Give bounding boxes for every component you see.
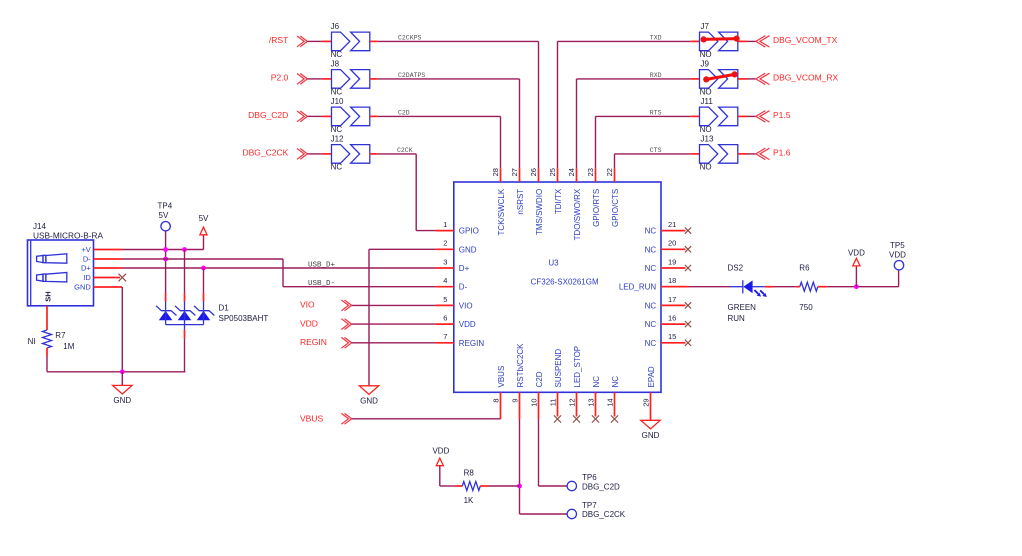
diode D1 element 3	[194, 293, 268, 325]
J14 plug symbol lower	[37, 273, 67, 282]
port DBG_VCOM_RX	[756, 73, 839, 85]
svg-text:NC: NC	[645, 264, 657, 273]
wire pin 9 net	[520, 419, 568, 514]
svg-text:5V: 5V	[199, 214, 209, 223]
svg-text:C2D: C2D	[398, 109, 410, 116]
pin D- of J14	[83, 255, 122, 264]
wire net C2DATPS	[378, 72, 520, 168]
wire D1 second column	[184, 250, 186, 294]
junction R8/pin9	[517, 484, 522, 489]
svg-text:U3: U3	[548, 259, 559, 268]
pin D+ of J14	[81, 264, 122, 273]
pin ID of J14	[83, 273, 120, 282]
svg-text:29: 29	[642, 398, 651, 406]
svg-text:P1.6: P1.6	[773, 148, 791, 158]
svg-text:NO: NO	[700, 125, 712, 134]
svg-text:VBUS: VBUS	[497, 366, 506, 388]
svg-text:TP6: TP6	[582, 473, 597, 482]
svg-text:R6: R6	[799, 263, 810, 272]
svg-text:RUN: RUN	[728, 314, 746, 323]
wire VDD to R8	[440, 466, 463, 486]
svg-text:+V: +V	[81, 245, 90, 254]
svg-text:VDD: VDD	[432, 447, 449, 456]
wire D1 to ground rail	[184, 325, 186, 372]
svg-text:25: 25	[548, 168, 557, 176]
pin 12 LED_STOP of U3	[568, 346, 582, 423]
pin 4 D- of U3	[435, 276, 467, 292]
resistor R6	[799, 263, 818, 312]
svg-text:SP0503BAHT: SP0503BAHT	[219, 314, 269, 323]
pin 29 EPAD of U3	[642, 366, 656, 420]
svg-text:P1.5: P1.5	[773, 110, 791, 120]
svg-text:NC: NC	[611, 376, 620, 388]
svg-text:VIO: VIO	[459, 301, 473, 310]
LED DS2	[728, 263, 767, 323]
svg-text:RXD: RXD	[650, 72, 662, 79]
pin 2 of J10	[370, 115, 378, 117]
svg-text:REGIN: REGIN	[300, 337, 327, 347]
pin 21 NC of U3	[645, 220, 691, 236]
svg-text:GPIO/CTS: GPIO/CTS	[611, 189, 620, 227]
svg-text:DBG_VCOM_RX: DBG_VCOM_RX	[773, 73, 839, 83]
wire net RXD	[577, 72, 691, 168]
pin 2 of J12	[370, 153, 378, 155]
svg-text:7: 7	[443, 332, 447, 341]
svg-text:8: 8	[492, 398, 501, 402]
pin 9 RSTb/C2CK of U3	[511, 343, 525, 419]
pin 26 TMS/SWDIO of U3	[529, 168, 544, 235]
wire pin 10 net	[539, 419, 568, 486]
wire USB_D+ to pin 3	[122, 261, 435, 269]
svg-text:1K: 1K	[464, 496, 474, 505]
svg-text:16: 16	[668, 314, 676, 323]
svg-text:GREEN: GREEN	[728, 303, 757, 312]
pin 1 of J11	[690, 115, 699, 117]
svg-text:NC: NC	[645, 339, 657, 348]
svg-text:C2CKPS: C2CKPS	[398, 34, 422, 41]
port DBG_VCOM_TX	[756, 35, 838, 47]
svg-text:SUSPEND: SUSPEND	[554, 349, 563, 388]
svg-text:USB-MICRO-B-RA: USB-MICRO-B-RA	[33, 231, 104, 241]
wire J14 GND pin down	[121, 287, 123, 372]
svg-text:22: 22	[605, 168, 614, 176]
svg-text:5V: 5V	[159, 211, 169, 220]
svg-text:NC: NC	[331, 125, 343, 134]
port DBG_C2CK	[242, 148, 307, 160]
wire USB_D- to pin 4	[283, 280, 435, 288]
op-amp U1 replacement: IC U3 body	[454, 182, 661, 392]
test point TP4	[158, 201, 173, 231]
svg-text:13: 13	[587, 398, 596, 406]
svg-text:D-: D-	[83, 255, 91, 264]
pin 14 NC of U3	[606, 376, 620, 423]
wire net C2CKPS	[378, 34, 539, 168]
wire P2.0 port to J8	[307, 78, 331, 80]
svg-text:GND: GND	[113, 396, 131, 405]
junction VDD/R6	[854, 284, 859, 289]
svg-text:TDO/SWO/RX: TDO/SWO/RX	[573, 188, 582, 240]
svg-text:750: 750	[799, 303, 813, 312]
svg-text:12: 12	[568, 398, 577, 406]
svg-text:USB_D-: USB_D-	[308, 280, 335, 288]
svg-text:VDD: VDD	[300, 318, 318, 328]
pin 16 NC of U3	[645, 314, 691, 330]
svg-text:NC: NC	[331, 50, 343, 59]
wire VBUS to pin 8	[352, 418, 501, 420]
svg-text:24: 24	[567, 168, 576, 176]
svg-text:27: 27	[510, 168, 519, 176]
jumper J12	[331, 135, 370, 172]
jumper J6	[331, 22, 370, 59]
power VDD at R6	[848, 248, 865, 266]
svg-text:C2D: C2D	[535, 371, 544, 387]
svg-text:19: 19	[668, 257, 676, 266]
jumper J10	[331, 97, 370, 134]
svg-text:GND: GND	[360, 396, 378, 405]
svg-text:D-: D-	[459, 283, 468, 292]
ground at EPAD	[641, 420, 660, 440]
svg-text:5: 5	[443, 295, 447, 304]
test point TP6	[567, 473, 620, 492]
pin 2 of J8	[370, 78, 378, 80]
wire J13 to port	[738, 153, 756, 155]
svg-text:14: 14	[606, 398, 615, 406]
wire DS2 to R6	[765, 286, 800, 288]
pin +V of J14	[81, 245, 122, 254]
svg-text:1: 1	[443, 220, 447, 229]
svg-text:6: 6	[443, 314, 447, 323]
svg-text:nSRST: nSRST	[516, 189, 525, 215]
svg-text:NI: NI	[28, 337, 36, 346]
junction +V/TP4	[163, 247, 168, 252]
svg-text:NC: NC	[645, 227, 657, 236]
svg-text:TMS/SWDIO: TMS/SWDIO	[535, 189, 544, 235]
wire VDD to U3	[352, 323, 436, 325]
svg-text:RTS: RTS	[650, 109, 662, 116]
svg-text:J9: J9	[701, 60, 710, 69]
power 5V	[199, 214, 209, 235]
svg-text:TXD: TXD	[650, 34, 662, 41]
svg-text:D+: D+	[81, 264, 91, 273]
pin 1 of J13	[690, 153, 699, 155]
svg-text:NO: NO	[700, 88, 712, 97]
J14 plug symbol upper	[37, 254, 67, 263]
svg-text:NC: NC	[592, 376, 601, 388]
svg-text:DBG_C2CK: DBG_C2CK	[242, 148, 288, 158]
wire DBG_C2D port to J10	[307, 115, 331, 117]
port /RST	[269, 35, 307, 47]
resistor R7	[28, 330, 75, 351]
svg-text:SH: SH	[43, 291, 52, 301]
port VIO	[300, 300, 352, 311]
svg-text:VDD: VDD	[889, 250, 906, 259]
pin 28 TCK/SWCLK of U3	[491, 168, 506, 235]
svg-text:J7: J7	[701, 22, 710, 31]
pin 18 LED_RUN of U3	[619, 276, 686, 292]
wire VDD drop	[855, 266, 857, 287]
svg-text:NO: NO	[700, 163, 712, 172]
svg-text:EPAD: EPAD	[647, 366, 656, 387]
wire TP4 to D1	[165, 231, 167, 293]
svg-text:D+: D+	[459, 264, 470, 273]
svg-text:CF326-SX0261GM: CF326-SX0261GM	[531, 278, 599, 287]
port DBG_C2D	[248, 110, 307, 122]
svg-text:11: 11	[549, 398, 558, 406]
svg-text:TP4: TP4	[158, 201, 173, 210]
ground under J14	[113, 385, 132, 405]
svg-text:3: 3	[443, 257, 447, 266]
svg-text:LED_RUN: LED_RUN	[619, 283, 657, 292]
pin 22 GPIO/CTS of U3	[605, 168, 620, 227]
wire J14 shield to R7	[46, 306, 48, 330]
jumper J9	[700, 60, 738, 97]
svg-text:DBG_C2CK: DBG_C2CK	[582, 510, 626, 519]
svg-text:LED_STOP: LED_STOP	[573, 346, 582, 388]
svg-text:REGIN: REGIN	[459, 339, 485, 348]
svg-text:TP7: TP7	[582, 501, 597, 510]
svg-text:23: 23	[586, 168, 595, 176]
svg-text:CTS: CTS	[650, 147, 662, 154]
svg-text:28: 28	[491, 168, 500, 176]
svg-text:DS2: DS2	[728, 263, 744, 272]
wire D- from J14	[122, 259, 283, 287]
svg-text:NC: NC	[645, 245, 657, 254]
svg-text:VBUS: VBUS	[300, 414, 323, 424]
port P1.5	[756, 110, 791, 122]
svg-text:10: 10	[530, 398, 539, 406]
pin 3 D+ of U3	[435, 257, 469, 273]
pin 17 NC of U3	[645, 295, 691, 311]
svg-text:C2DATPS: C2DATPS	[398, 72, 425, 79]
pin 19 NC of U3	[645, 257, 691, 273]
pin 2 of J6	[370, 40, 378, 42]
wire DBG_C2CK port to J12	[307, 153, 331, 155]
svg-text:GND: GND	[459, 245, 477, 254]
wire net C2CK	[378, 147, 436, 231]
jumper J8	[331, 60, 370, 97]
pin 23 GPIO/RTS of U3	[586, 168, 601, 227]
jumper J11	[700, 97, 738, 134]
pin 2 GND of U3	[435, 239, 476, 255]
pin 5 VIO of U3	[435, 295, 472, 311]
svg-text:J6: J6	[331, 22, 340, 31]
svg-text:DBG_C2D: DBG_C2D	[248, 110, 288, 120]
svg-text:J10: J10	[331, 97, 344, 106]
svg-text:TP5: TP5	[890, 241, 905, 250]
pin 7 REGIN of U3	[435, 332, 484, 348]
wire net CTS	[615, 147, 691, 168]
svg-text:/RST: /RST	[269, 35, 288, 45]
D1 common rail	[166, 324, 204, 326]
svg-text:R8: R8	[464, 469, 475, 478]
svg-text:GND: GND	[74, 283, 91, 292]
wire /RST port to J6	[307, 40, 331, 42]
connector J14 body	[28, 222, 104, 306]
wire pin2 GND	[369, 249, 435, 385]
pin 8 VBUS of U3	[492, 366, 506, 419]
wire R8 to pin9 column	[480, 485, 519, 487]
pin 25 TDI/TX of U3	[548, 168, 563, 214]
svg-text:2: 2	[443, 239, 447, 248]
port P2.0	[271, 73, 308, 85]
port VBUS	[300, 413, 352, 424]
no-connect on ID	[119, 274, 127, 282]
junction +V/D1 second column	[182, 247, 187, 252]
pin 24 TDO/SWO/RX of U3	[567, 168, 582, 240]
shorting cap on J9	[703, 71, 738, 82]
wire VIO to U3	[352, 304, 436, 306]
pin 1 GPIO of U3	[435, 220, 478, 236]
pin SH of J14	[43, 291, 52, 301]
junction ground rail	[120, 369, 125, 374]
svg-text:J12: J12	[331, 135, 344, 144]
svg-text:TCK/SWCLK: TCK/SWCLK	[497, 188, 506, 235]
svg-text:20: 20	[668, 239, 676, 248]
jumper J13	[700, 135, 738, 172]
pin 1 of J7	[690, 40, 699, 42]
svg-text:1M: 1M	[63, 342, 74, 351]
svg-text:ID: ID	[83, 273, 91, 282]
svg-text:17: 17	[668, 295, 676, 304]
wire to GND symbol	[121, 372, 123, 386]
pin 13 NC of U3	[587, 376, 601, 423]
ground at pin 2	[359, 386, 378, 406]
wire REGIN to U3	[352, 342, 436, 344]
diode D1 element 1	[156, 293, 176, 325]
svg-text:NO: NO	[700, 50, 712, 59]
pin 6 VDD of U3	[435, 314, 476, 330]
port REGIN	[300, 337, 352, 348]
pin 10 C2D of U3	[530, 371, 544, 419]
junction D-/TP4 column	[163, 257, 168, 262]
svg-text:DBG_C2D: DBG_C2D	[582, 482, 620, 491]
wire D1 third column	[203, 268, 205, 293]
pin 27 nSRST of U3	[510, 168, 525, 215]
svg-text:GPIO: GPIO	[459, 227, 479, 236]
jumper J7	[700, 22, 738, 59]
svg-text:GPIO/RTS: GPIO/RTS	[592, 189, 601, 227]
svg-text:15: 15	[668, 332, 676, 341]
pin 20 NC of U3	[645, 239, 691, 255]
svg-text:C2CK: C2CK	[397, 147, 413, 154]
wire pin18 to DS2	[661, 286, 729, 288]
pin 11 SUSPEND of U3	[549, 349, 563, 423]
svg-text:TDI/TX: TDI/TX	[554, 188, 563, 214]
wire J9 to port	[738, 78, 756, 80]
diode D1 element 2	[175, 293, 195, 325]
svg-text:9: 9	[511, 398, 520, 402]
svg-text:J11: J11	[701, 97, 714, 106]
wire +V to 5V	[122, 235, 204, 250]
pin GND of J14	[74, 283, 122, 292]
test point TP7	[567, 501, 626, 519]
svg-text:DBG_VCOM_TX: DBG_VCOM_TX	[773, 35, 838, 45]
wire J11 to port	[738, 115, 756, 117]
svg-text:J13: J13	[701, 135, 714, 144]
svg-text:21: 21	[668, 220, 676, 229]
svg-text:VDD: VDD	[848, 248, 865, 257]
svg-text:J8: J8	[331, 60, 340, 69]
svg-text:VIO: VIO	[300, 300, 315, 310]
port VDD	[300, 318, 352, 329]
wire net TXD	[558, 34, 691, 168]
wire R7 to ground rail	[46, 348, 48, 372]
svg-text:GND: GND	[642, 431, 660, 440]
resistor R8	[462, 469, 480, 505]
svg-text:NC: NC	[331, 163, 343, 172]
svg-text:NC: NC	[645, 320, 657, 329]
wire net C2D	[378, 109, 501, 168]
svg-text:P2.0: P2.0	[271, 73, 289, 83]
svg-text:D1: D1	[219, 304, 230, 313]
test point TP5	[889, 241, 906, 270]
power VDD at R8	[432, 447, 449, 466]
ground rail	[47, 371, 185, 373]
wire J7 to port	[738, 40, 756, 42]
svg-text:NC: NC	[645, 301, 657, 310]
svg-text:NC: NC	[331, 88, 343, 97]
svg-text:R7: R7	[55, 331, 66, 340]
svg-text:VDD: VDD	[459, 320, 476, 329]
port P1.6	[756, 148, 791, 160]
svg-text:USB_D+: USB_D+	[308, 261, 336, 269]
shorting cap on J7	[701, 36, 740, 43]
svg-text:18: 18	[668, 276, 676, 285]
svg-text:RSTb/C2CK: RSTb/C2CK	[516, 343, 525, 388]
wire R6 to TP5	[818, 270, 899, 287]
svg-text:26: 26	[529, 168, 538, 176]
wire net RTS	[596, 109, 691, 168]
junction D+/D1 third column	[201, 266, 206, 271]
pin 1 of J9	[690, 78, 699, 80]
pin 15 NC of U3	[645, 332, 691, 348]
svg-text:4: 4	[443, 276, 447, 285]
